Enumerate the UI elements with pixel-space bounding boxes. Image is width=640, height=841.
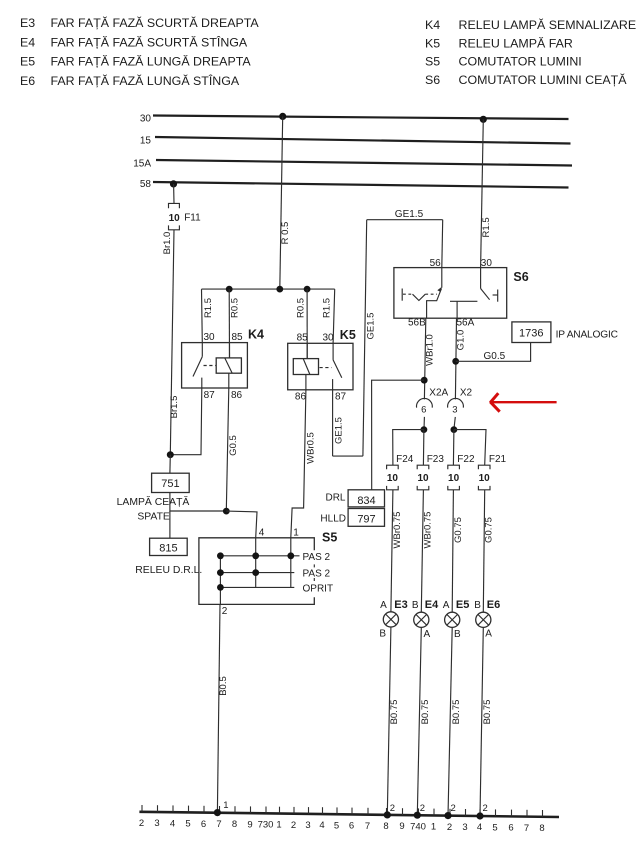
wire down to box 815 [169,511,171,538]
ground rail [139,812,559,817]
svg-text:K4: K4 [425,18,440,32]
svg-text:85: 85 [232,332,244,343]
wire R0.5 from bus 30 down to relay feed node [280,116,291,289]
svg-text:F21: F21 [489,454,507,465]
svg-text:2: 2 [390,803,395,814]
svg-text:1736: 1736 [519,327,543,339]
lamp E3 [379,599,407,640]
svg-text:3: 3 [462,822,467,833]
svg-text:B: B [412,600,419,611]
svg-text:E3: E3 [20,16,35,30]
bus 15 [140,136,571,147]
connector X2A pin 6 [417,387,449,429]
wire node to F22 [452,430,455,465]
wire bus58 to fuse F11 [173,184,175,203]
bus 15A [133,159,572,170]
wire from WBr1.0 node to box 834 [372,380,425,490]
svg-text:FAR FAȚĂ FAZĂ SCURTĂ STÎNGA: FAR FAȚĂ FAZĂ SCURTĂ STÎNGA [51,35,248,50]
fuse F24 value 10 [387,454,414,490]
ground junction lamp E3, pin 2 [384,803,395,819]
wire GE1.5 rising vertical [363,220,377,456]
svg-text:A: A [485,629,492,640]
svg-text:OPRIT: OPRIT [303,583,334,594]
svg-text:4: 4 [477,822,482,833]
svg-text:S5: S5 [425,55,440,69]
wire B0.75 lamp E4 to ground [417,628,431,816]
svg-text:G0.75: G0.75 [483,517,494,543]
svg-text:COMUTATOR LUMINI CEAȚĂ: COMUTATOR LUMINI CEAȚĂ [459,72,628,87]
svg-text:2: 2 [420,803,425,814]
svg-text:2: 2 [483,803,488,814]
wire GE1.5 top horizontal [367,209,443,220]
svg-text:X2A: X2A [429,387,448,398]
svg-text:X2: X2 [460,387,473,398]
wire B0.75 lamp E6 to ground [480,628,493,817]
svg-text:WBr1.0: WBr1.0 [425,334,436,366]
svg-text:WBr0.75: WBr0.75 [422,512,433,549]
wire G0.5 from G1.0 node to IP box 1736 [456,343,531,362]
svg-text:4: 4 [170,818,175,829]
svg-text:6: 6 [349,821,354,832]
svg-text:56A: 56A [457,318,475,329]
svg-text:815: 815 [159,542,177,554]
svg-text:IP ANALOGIC: IP ANALOGIC [556,329,618,340]
svg-text:GE1.5: GE1.5 [395,209,424,220]
svg-text:1: 1 [293,527,299,538]
svg-text:5: 5 [185,819,190,830]
svg-text:30: 30 [481,258,493,269]
svg-text:F23: F23 [427,454,445,465]
svg-text:E4: E4 [425,599,439,611]
svg-text:B0.75: B0.75 [482,700,493,725]
svg-text:6: 6 [508,823,513,834]
svg-text:DRL: DRL [325,493,345,504]
S5 contact columns [219,556,221,605]
svg-text:2: 2 [291,820,296,831]
svg-text:5: 5 [334,820,339,831]
svg-text:2: 2 [139,818,144,829]
ground rail ticks and track numbers [139,805,545,834]
ground junction S5 pin 2, track 1 [214,800,229,816]
svg-text:WBr0.75: WBr0.75 [392,512,403,549]
svg-text:15: 15 [140,136,152,147]
svg-text:B: B [454,629,461,640]
svg-text:9: 9 [399,821,404,832]
wire GE1.5 from K5 pin 87 down [333,390,345,456]
K5 coil [293,359,318,375]
svg-text:R1.5: R1.5 [203,298,214,318]
wire Br1.0 from F11 to node at y455 [162,230,174,455]
svg-text:2: 2 [451,803,456,814]
ground junction lamp E6, pin 2 [476,803,487,820]
wire G1.0 from S6 56A to connector X2 [455,318,466,399]
svg-text:834: 834 [357,495,375,507]
svg-text:751: 751 [161,478,179,490]
S6 30 blade [481,289,490,300]
svg-text:4: 4 [319,820,324,831]
lamp E5 [445,599,470,640]
svg-text:86: 86 [231,390,243,401]
fuse F22 value 10 [448,454,475,490]
wire WBr0.5 from K5 pin 86 to S5 pin 1 [291,390,317,538]
junction on bus 30 at R1.5 tap [480,116,487,123]
svg-text:2: 2 [447,822,452,833]
junction relay feed at K5 85 [304,286,311,293]
red pointer arrow [490,393,556,412]
svg-text:85: 85 [297,333,309,344]
svg-text:FAR FAȚĂ FAZĂ LUNGĂ DREAPTA: FAR FAȚĂ FAZĂ LUNGĂ DREAPTA [51,54,252,69]
S5 position row PAS 2 lower [220,572,294,574]
S5 position row PAS 2 [220,555,299,557]
svg-text:R1.5: R1.5 [481,217,492,237]
svg-text:G0.5: G0.5 [228,435,239,456]
svg-text:GE1.5: GE1.5 [333,417,344,444]
wire R1.5 to K4 pin 30 [202,289,214,343]
fuse F23 value 10 [417,454,444,490]
wire 751 to S5 node [170,493,226,512]
bus 30 [140,114,569,125]
wire node to box 751 [169,455,171,474]
junction S5 pin 4 node [223,508,230,515]
svg-text:86: 86 [295,392,307,403]
junction below X2A [421,426,428,433]
S6 right terminal [493,294,498,296]
svg-text:2: 2 [222,606,228,617]
wire Br1.5 from K4 pin 87 to node [169,388,202,455]
svg-text:R1.5: R1.5 [322,298,333,318]
wire relay feed horizontal [202,288,335,290]
junction on WBr1.0 to IP feed [421,377,428,384]
svg-text:E6: E6 [487,599,500,611]
svg-text:740: 740 [410,821,426,832]
svg-text:E4: E4 [20,36,35,50]
wire R1.5 to K5 pin 30 [322,289,335,343]
wire GE1.5 into S6 pin 56 [441,220,444,268]
legend left column: lamp designators E3-E6 [20,15,259,88]
svg-text:G0.5: G0.5 [484,351,506,362]
svg-text:10: 10 [387,473,399,484]
ground junction lamp E5, pin 2 [444,803,455,819]
svg-text:E5: E5 [20,55,35,69]
svg-text:5: 5 [492,822,497,833]
svg-text:K5: K5 [425,37,440,51]
svg-text:RELEU LAMPĂ SEMNALIZARE: RELEU LAMPĂ SEMNALIZARE [459,17,637,32]
svg-text:LAMPĂ CEAȚĂ: LAMPĂ CEAȚĂ [117,495,190,508]
svg-text:R0.5: R0.5 [296,298,307,318]
wire node to F23 [422,430,425,465]
svg-text:K4: K4 [248,328,264,342]
ground junction lamp E4, pin 2 [414,803,425,819]
svg-text:8: 8 [232,819,237,830]
wire B0.75 lamp E5 to ground [448,628,462,816]
K4 coil [216,358,241,373]
svg-text:GE1.5: GE1.5 [366,313,377,340]
junction relay feed at R0.5 [276,286,283,293]
svg-text:87: 87 [335,392,347,403]
svg-text:10: 10 [169,213,181,224]
svg-text:1: 1 [431,822,436,833]
svg-text:10: 10 [448,473,460,484]
svg-text:R 0.5: R 0.5 [280,222,291,245]
box 815 RELEU D.R.L. [135,538,202,576]
wire node to S5 pin 4 [226,511,257,538]
svg-text:A: A [380,600,387,611]
svg-text:B: B [379,629,386,640]
switch S5 [199,527,337,617]
svg-text:B0.75: B0.75 [420,700,431,725]
K5 switch blade [333,360,342,378]
svg-text:56B: 56B [408,318,426,329]
svg-text:1: 1 [276,820,281,831]
K4 switch blade [193,357,202,377]
junction below X2 [451,426,458,433]
svg-text:A: A [443,600,450,611]
S6 56A contact bar [456,301,458,318]
box 834 DRL [325,490,384,507]
svg-text:6: 6 [201,819,206,830]
fuse F21 value 10 [478,454,506,490]
svg-text:PAS 2: PAS 2 [303,569,331,580]
svg-text:R0.5: R0.5 [230,298,241,318]
relay K5 [288,328,356,403]
svg-text:3: 3 [305,820,310,831]
wire WBr0.75 F23 to lamp E4 [421,490,433,612]
legend right column: relay and switch designators K4,K5,S5,S6 [425,17,636,87]
svg-text:S5: S5 [322,531,337,545]
svg-text:8: 8 [383,821,388,832]
svg-text:RELEU D.R.L.: RELEU D.R.L. [135,565,202,576]
box 797 HLLD [320,509,384,527]
svg-text:S6: S6 [513,270,528,284]
svg-text:7: 7 [216,819,221,830]
svg-text:RELEU LAMPĂ FAR: RELEU LAMPĂ FAR [459,36,573,51]
node junction Br wires [167,451,174,458]
svg-text:797: 797 [357,514,375,526]
svg-text:F24: F24 [396,454,414,465]
svg-text:10: 10 [479,473,491,484]
svg-text:SPATE: SPATE [137,511,170,522]
svg-text:1: 1 [223,800,228,811]
lamp E6 [476,599,501,640]
svg-text:FAR FAȚĂ FAZĂ SCURTĂ DREAPTA: FAR FAȚĂ FAZĂ SCURTĂ DREAPTA [51,15,260,30]
svg-text:3: 3 [452,404,457,415]
wire node to F21 [454,430,486,465]
svg-text:E3: E3 [394,599,407,611]
svg-text:B0.75: B0.75 [389,700,400,725]
wire B0.5 from S5 pin 2 to ground rail [217,604,229,812]
bus 58 [140,179,569,190]
svg-text:3: 3 [154,818,159,829]
svg-text:WBr0.5: WBr0.5 [305,432,316,464]
junction on bus 30 at R0.5 tap [279,113,286,120]
S5 position row OPRIT [220,586,294,588]
svg-text:G0.75: G0.75 [453,517,464,543]
svg-text:30: 30 [140,114,152,125]
junction relay feed at K4 85 [226,286,233,293]
fuse F11 value 10 [169,203,202,229]
junction on G1.0 [452,358,459,365]
svg-text:E6: E6 [20,74,35,88]
svg-text:15A: 15A [133,159,151,170]
svg-text:F22: F22 [457,454,475,465]
box 1736 IP ANALOGIC [512,322,618,343]
svg-text:7: 7 [524,823,529,834]
svg-text:Br1.0: Br1.0 [162,232,173,255]
wire node to F24 [393,430,424,465]
switch S6 [394,258,529,329]
svg-text:COMUTATOR LUMINI: COMUTATOR LUMINI [459,55,582,69]
svg-text:K5: K5 [340,328,356,342]
svg-text:6: 6 [421,404,426,415]
svg-text:B0.5: B0.5 [218,676,229,696]
junction on bus 58 at F11 tap [170,180,177,187]
wire G0.75 F22 to lamp E5 [452,490,464,612]
svg-text:E5: E5 [456,599,469,611]
svg-text:S6: S6 [425,73,440,87]
svg-text:PAS 2: PAS 2 [303,552,331,563]
svg-text:HLLD: HLLD [320,514,346,525]
svg-text:10: 10 [417,473,429,484]
wire G0.5 from K4 pin 86 to S5 node [226,388,239,511]
wire GE1.5 bottom jog [333,455,363,457]
svg-text:F11: F11 [184,213,201,224]
S6 wiper 56B [427,288,442,318]
svg-text:8: 8 [539,823,544,834]
svg-text:G1.0: G1.0 [456,330,467,351]
wire B0.75 lamp E3 to ground [387,627,400,815]
S6 left detent contact [401,289,403,301]
wire R0.5 to K5 pin 85 [296,289,308,359]
svg-text:B: B [474,600,481,611]
svg-text:A: A [424,629,431,640]
svg-text:58: 58 [140,179,152,190]
lamp E4 [414,599,439,640]
wire R1.5 from bus 30 to S6 pin 30 [481,119,493,267]
relay K4 [182,328,264,402]
svg-text:9: 9 [247,819,252,830]
svg-text:B0.75: B0.75 [451,700,462,725]
wire WBr1.0 from S6 56B to connector X2A [424,318,435,399]
svg-text:7: 7 [365,821,370,832]
svg-text:730: 730 [258,820,274,831]
svg-text:FAR FAȚĂ FAZĂ LUNGĂ STÎNGA: FAR FAȚĂ FAZĂ LUNGĂ STÎNGA [51,73,240,88]
wire WBr0.75 F24 to lamp E3 [391,490,403,612]
box 751 LAMPA CEATA SPATE [117,473,190,522]
wire G0.75 F21 to lamp E6 [483,490,494,612]
wire R0.5 to K4 pin 85 [229,289,240,358]
svg-text:56: 56 [430,258,442,269]
svg-text:30: 30 [204,332,216,343]
svg-text:Br1.5: Br1.5 [169,396,180,419]
connector X2 pin 3 [448,387,473,429]
svg-text:30: 30 [323,333,335,344]
svg-text:4: 4 [259,527,265,538]
svg-text:87: 87 [204,390,216,401]
